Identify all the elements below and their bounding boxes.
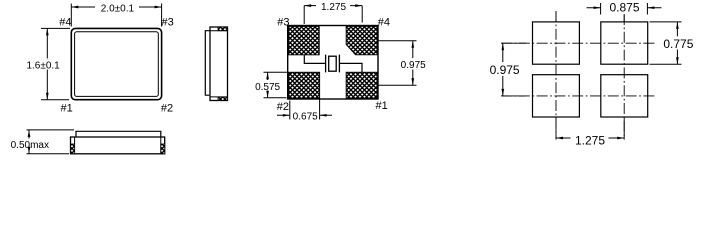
body <box>210 27 228 101</box>
top pad strip line <box>210 30 228 32</box>
dimension 0.675 (bottom view) <box>277 100 332 123</box>
dimension 2.0±0.1 <box>71 3 161 26</box>
right cap line <box>160 137 162 154</box>
dimension 0.775 <box>650 22 694 64</box>
svg-text:#2: #2 <box>277 101 289 113</box>
land pad top-left <box>533 22 580 64</box>
package outline outer <box>71 28 161 99</box>
lid <box>76 131 161 137</box>
dimension 0.975 (land) <box>490 43 520 96</box>
centerline column 1 <box>555 11 557 140</box>
pad #4 (top-right, chamfered) <box>346 26 377 54</box>
centerline row 2 <box>501 95 655 97</box>
bottom pad fill <box>218 97 227 101</box>
svg-text:0.875: 0.875 <box>609 1 639 15</box>
svg-text:0.975: 0.975 <box>490 63 520 77</box>
wire left <box>304 55 325 64</box>
svg-text:#1: #1 <box>61 102 73 114</box>
land pad bottom-right <box>601 75 648 117</box>
svg-text:0.575: 0.575 <box>255 82 280 93</box>
top pad divider <box>217 27 219 31</box>
land pad top-right <box>601 22 648 64</box>
dimension 0.975 (bottom view) <box>379 41 427 85</box>
bottom pad divider <box>217 97 219 101</box>
svg-text:0.50max: 0.50max <box>11 140 49 151</box>
dimension 0.575 (bottom view) <box>255 72 287 98</box>
land pad bottom-left <box>533 75 580 117</box>
dimension 1.275 (bottom view) <box>304 2 362 24</box>
left cap pad <box>71 144 75 154</box>
dimension 0.875 <box>587 1 662 15</box>
wire right <box>339 63 362 72</box>
top pad fill <box>218 27 227 31</box>
dimension 0.50max <box>11 130 74 154</box>
dimension 1.6±0.1 <box>26 28 70 99</box>
svg-text:2.0±0.1: 2.0±0.1 <box>101 3 135 14</box>
pad #3 (top-left) <box>289 26 320 54</box>
dimension 1.275 (land) <box>556 133 624 147</box>
svg-text:1.275: 1.275 <box>321 2 346 13</box>
svg-text:0.675: 0.675 <box>293 111 318 122</box>
svg-text:0.975: 0.975 <box>401 60 426 71</box>
svg-text:#4: #4 <box>59 16 71 28</box>
svg-text:0.775: 0.775 <box>663 37 693 51</box>
centerline column 2 <box>623 14 625 140</box>
lid seam <box>205 31 210 96</box>
pad #2 (bottom-left) <box>289 72 320 98</box>
svg-text:1.6±0.1: 1.6±0.1 <box>26 61 60 72</box>
package outline <box>288 26 378 100</box>
centerline row 1 <box>501 42 656 44</box>
svg-text:1.275: 1.275 <box>575 133 605 147</box>
left cap line <box>74 137 76 154</box>
bottom pad strip line <box>210 96 228 98</box>
pad #1 (bottom-right) <box>346 72 377 98</box>
svg-text:#1: #1 <box>376 100 388 112</box>
svg-text:#3: #3 <box>277 16 289 28</box>
body <box>71 137 165 154</box>
svg-text:#3: #3 <box>162 16 174 28</box>
crystal symbol <box>326 55 340 73</box>
package outline inner <box>75 32 159 97</box>
centerline solid overdraw segments <box>502 12 624 139</box>
svg-text:#2: #2 <box>161 102 173 114</box>
right cap pad <box>161 144 165 154</box>
svg-text:#4: #4 <box>378 16 390 28</box>
